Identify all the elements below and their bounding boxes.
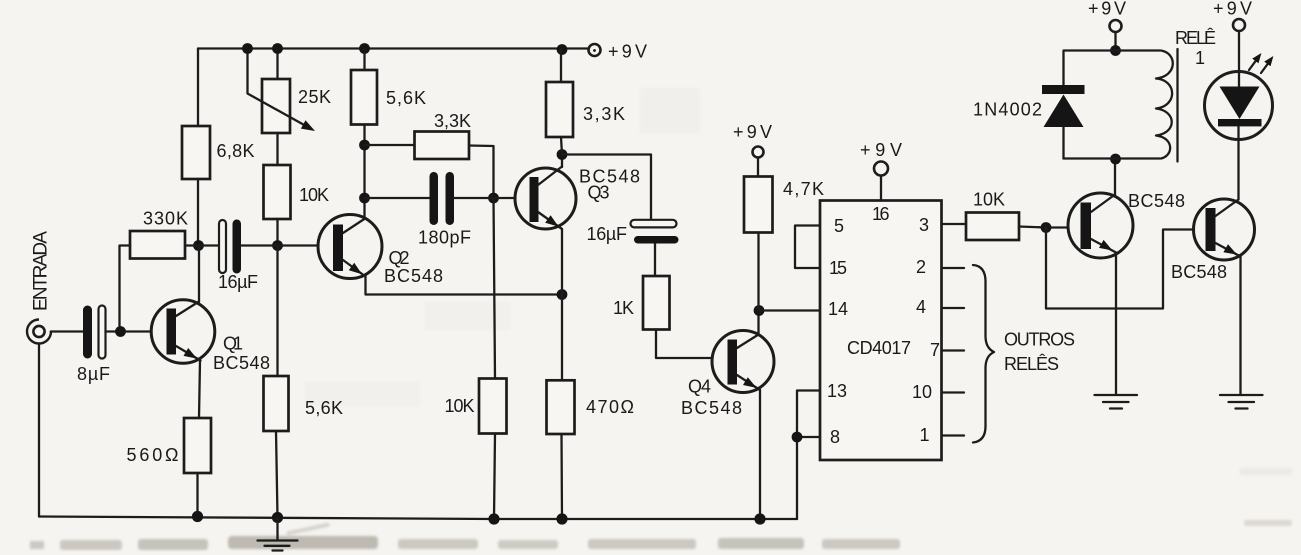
wire 10K bottom lead: [276, 219, 278, 246]
label pin 1: [920, 425, 930, 445]
label BC548 of Q3: [579, 167, 640, 187]
svg-text:180pF: 180pF: [418, 228, 471, 248]
transistor Q1: [151, 300, 215, 364]
wire +9V top rail: [198, 47, 588, 49]
wire 1K to Q4 base: [656, 330, 713, 359]
label ENTRADA: [31, 231, 52, 311]
wire ground bus: [39, 517, 797, 520]
junction emitter node (Q2/Q3/470): [557, 289, 568, 300]
wire Q1 emitter lead: [199, 361, 200, 419]
svg-text:+9V: +9V: [1213, 0, 1252, 19]
junction 5.6K top on rail: [359, 43, 370, 54]
svg-text:RELÊ: RELÊ: [1175, 28, 1216, 48]
label 16uF right: [587, 224, 628, 244]
svg-text:BC548: BC548: [1128, 191, 1185, 211]
label pin 16: [872, 204, 890, 224]
resistor R 6.8K: [182, 126, 210, 179]
label Q2: [389, 248, 410, 268]
junction pot on +9V rail: [272, 43, 283, 54]
svg-text:1N4002: 1N4002: [973, 100, 1042, 120]
label OUTROS: [1004, 330, 1076, 350]
LED D2 triangle: [1220, 87, 1260, 120]
potentiometer 25K wiper arrowhead: [301, 120, 315, 131]
label pin 8: [830, 427, 840, 447]
svg-text:+9V: +9V: [860, 140, 902, 160]
LED D2 body circle: [1205, 72, 1273, 140]
svg-text:3,3K: 3,3K: [583, 104, 625, 124]
label BC548 of Q1: [213, 353, 270, 373]
LED light arrow 2: [1261, 56, 1273, 73]
wire 180pF to Q3 base: [454, 197, 516, 199]
label Q4: [688, 377, 711, 397]
junction pin 8/13 node: [792, 432, 803, 443]
junction relay top node: [1110, 45, 1121, 56]
resistor 330K: [130, 231, 185, 259]
wire 6.8K top lead: [197, 49, 199, 127]
wire 330K left lead down: [120, 246, 131, 332]
label CD4017: [847, 338, 911, 358]
svg-text:5,6K: 5,6K: [386, 88, 426, 108]
wire 3.3K top lead: [560, 50, 562, 83]
svg-text:4,7K: 4,7K: [783, 179, 824, 199]
wire pot to 10K: [276, 133, 278, 165]
wire Q4 emitter lead: [759, 390, 761, 519]
wire 5.6K (left) top lead: [276, 246, 278, 377]
terminal +9V 4.7K: [753, 147, 764, 158]
wire 3.3K bottom lead: [561, 137, 562, 155]
junction Q4 collector / pin14: [754, 305, 765, 316]
wire 16uF to Q2 base: [241, 244, 319, 246]
label 8uF: [77, 364, 110, 384]
svg-text:6,8K: 6,8K: [217, 141, 255, 161]
svg-text:8µF: 8µF: [77, 364, 110, 384]
label 560 ohm: [127, 445, 179, 465]
capacitor 180pF plate left: [430, 172, 439, 225]
label pin 3: [919, 215, 929, 235]
svg-text:5,6K: 5,6K: [305, 398, 343, 418]
label Q3: [588, 183, 610, 203]
wire ground bus left drop: [38, 344, 40, 517]
label +9V relay: [1088, 0, 1126, 19]
wire relay loop top: [1064, 49, 1160, 51]
svg-text:3,3K: 3,3K: [434, 111, 471, 131]
svg-text:16µF: 16µF: [218, 272, 258, 292]
junction 560 on ground bus: [192, 511, 203, 522]
wire base feedback run: [1046, 228, 1194, 309]
wire 5.6K to Q2 collector node: [363, 125, 365, 219]
label pin 5: [834, 216, 844, 236]
resistor 3,3K (Q3 load): [546, 82, 573, 137]
label pin 4: [916, 297, 926, 317]
capacitor 8uF plate right: [99, 306, 106, 359]
resistor 1K: [643, 276, 670, 330]
svg-text:BC548: BC548: [681, 398, 742, 418]
label BC548 of Q2: [384, 266, 443, 286]
junction Q4 emitter on ground bus: [754, 513, 765, 524]
junction 10K on ground bus: [488, 513, 499, 524]
label BC548 of Q4: [681, 398, 742, 418]
svg-text:25K: 25K: [298, 87, 331, 107]
label +9V LED: [1213, 0, 1252, 19]
junction 5.6K on ground bus: [272, 512, 283, 523]
transistor Q5 relay driver: [1068, 193, 1133, 258]
svg-text:1: 1: [1195, 48, 1205, 68]
wire Q2 emitter path: [366, 277, 563, 295]
wire 10K (Q3 base) drop: [494, 198, 496, 379]
resistor 10K (bias): [264, 165, 291, 219]
wire pins 5-15 jumper: [795, 226, 820, 269]
wire pin14 link: [759, 309, 820, 311]
junction 470 on ground bus: [556, 513, 567, 524]
wire relay loop bottom: [1064, 157, 1161, 159]
svg-text:BC548: BC548: [213, 353, 270, 373]
junction node B (bias / 16uF / 5.6K): [272, 240, 283, 251]
junction T5 base node: [1041, 222, 1052, 233]
wire LED to Q6 collector: [1237, 127, 1239, 200]
label 330K: [143, 209, 188, 229]
label 1K: [613, 298, 634, 318]
wire 6.8K bottom lead: [197, 179, 199, 246]
label pin 7: [930, 340, 940, 360]
svg-text:CD4017: CD4017: [847, 338, 911, 358]
resistor 3,3K feedback: [415, 132, 470, 160]
wire 4.7K bottom lead: [757, 233, 759, 311]
svg-text:15: 15: [829, 258, 847, 278]
label 5,6K lower: [305, 398, 343, 418]
svg-text:16µF: 16µF: [587, 224, 628, 244]
resistor 5,6K (Q2 collector load): [351, 70, 377, 125]
capacitor 16uF (right) top plate: [631, 220, 677, 228]
junction node A (Q1 collector / 330K right): [193, 240, 204, 251]
svg-text:10K: 10K: [299, 185, 329, 205]
IC U1 CD4017 body: [820, 201, 942, 461]
terminal +9V relay: [1110, 20, 1122, 32]
wire Q5 collector lead: [1114, 159, 1116, 195]
potentiometer 25K wiper wire: [248, 49, 307, 127]
junction Q3 base node: [488, 193, 499, 204]
connector ENTRADA jack: [27, 320, 51, 344]
label 1N4002: [973, 100, 1042, 120]
junction wiper on +9V rail: [242, 43, 253, 54]
wire pins 13-8 jumper: [797, 391, 820, 438]
wire 10K bottom to ground bus: [494, 434, 495, 520]
wire jack to 8uF: [51, 330, 83, 332]
svg-text:OUTROS: OUTROS: [1004, 330, 1076, 350]
svg-text:+9V: +9V: [733, 122, 772, 142]
svg-text:RELÊS: RELÊS: [1004, 354, 1060, 374]
junction relay bottom node: [1110, 154, 1121, 165]
label 3,3K feedback: [434, 111, 471, 131]
junction Q2 collector / 3.3K feedback: [359, 140, 370, 151]
resistor 4,7K: [744, 177, 773, 233]
svg-text:330K: 330K: [143, 209, 188, 229]
terminal +9V main: [589, 44, 601, 56]
capacitor 8uF plate left (solid): [83, 306, 92, 359]
svg-text:10K: 10K: [973, 190, 1005, 210]
wire pin 1 stub: [942, 434, 964, 436]
relay armature bar: [1176, 49, 1178, 162]
svg-text:470Ω: 470Ω: [586, 397, 634, 417]
transistor Q4: [712, 331, 774, 393]
label 25K: [298, 87, 331, 107]
label pin 10: [912, 382, 932, 402]
capacitor 16uF (right) bottom plate solid: [634, 236, 679, 244]
wire Q4 collector lead: [757, 311, 759, 335]
label 3,3K right: [583, 104, 625, 124]
wire Q2 collector to 180pF: [365, 197, 430, 199]
wire Q3 collector node to 16uF: [562, 155, 651, 220]
svg-text:+9V: +9V: [608, 42, 647, 62]
ground symbol main: [258, 518, 298, 551]
wire diode bottom lead: [1062, 127, 1064, 159]
label 470 ohm: [586, 397, 634, 417]
transistor Q3: [515, 167, 576, 230]
label pin 14: [828, 299, 848, 319]
svg-text:3: 3: [919, 215, 929, 235]
wire pin 4 stub: [942, 307, 964, 309]
ground symbol Q5: [1095, 395, 1138, 409]
label RELE: [1175, 28, 1216, 48]
junction Q1 base node: [115, 326, 126, 337]
junction 180pF left node: [359, 193, 370, 204]
label 10K mid: [445, 396, 475, 416]
svg-text:13: 13: [827, 381, 847, 401]
svg-text:4: 4: [916, 297, 926, 317]
wire 560 bottom lead: [196, 473, 198, 517]
svg-text:BC548: BC548: [1171, 262, 1227, 282]
brace outputs: [973, 265, 994, 443]
diode D1 1N4002 cathode bar: [1042, 85, 1085, 94]
svg-text:7: 7: [930, 340, 940, 360]
junction 3.3K top on rail: [557, 44, 568, 55]
label Q1: [223, 334, 243, 354]
svg-text:16: 16: [872, 204, 890, 224]
svg-text:10K: 10K: [445, 396, 475, 416]
terminal +9V LED: [1233, 19, 1245, 31]
resistor 10K (Q3 base): [479, 379, 507, 434]
svg-text:5: 5: [834, 216, 844, 236]
wire ground bus right riser: [796, 437, 798, 519]
label BC548 of Q5: [1128, 191, 1185, 211]
wire 5.6K top lead: [363, 49, 365, 71]
terminal +9V pin16: [874, 162, 888, 176]
LED D2 cathode bar: [1218, 119, 1262, 126]
resistor 470 ohm: [547, 380, 575, 434]
label BC548 of Q6: [1171, 262, 1227, 282]
svg-text:Q4: Q4: [688, 377, 711, 397]
LED light arrow 1: [1249, 53, 1261, 70]
wire pot top lead: [276, 49, 278, 80]
capacitor 16uF (coupling) plate left: [219, 220, 226, 273]
wire Q1 collector lead: [198, 246, 200, 303]
label relay 1: [1195, 48, 1205, 68]
wire pin 7 stub: [942, 349, 964, 351]
potentiometer 25K body: [262, 79, 290, 133]
svg-text:BC548: BC548: [384, 266, 443, 286]
wire 330K right to node A: [185, 244, 219, 246]
label +9V 4.7K: [733, 122, 772, 142]
wire Q6 emitter lead: [1239, 257, 1241, 395]
label +9V main: [608, 42, 647, 62]
wire diode top lead: [1062, 51, 1064, 87]
svg-text:ENTRADA: ENTRADA: [31, 231, 52, 311]
label 4,7K: [783, 179, 824, 199]
capacitor 16uF plate right (solid): [233, 220, 242, 274]
svg-text:560Ω: 560Ω: [127, 445, 179, 465]
svg-text:1K: 1K: [613, 298, 634, 318]
wire pin 2 stub: [942, 267, 964, 269]
svg-text:2: 2: [916, 257, 926, 277]
label pin 2: [916, 257, 926, 277]
pin 16 wire: [880, 176, 882, 201]
junction Q3 collector node: [557, 149, 568, 160]
resistor 10K output: [966, 213, 1019, 241]
transistor Q6 LED driver: [1194, 199, 1255, 260]
wire 470 bottom lead: [560, 434, 563, 519]
svg-text:8: 8: [830, 427, 840, 447]
wire emitter node to 470: [561, 295, 563, 381]
capacitor 180pF plate right: [446, 172, 455, 225]
svg-text:+9V: +9V: [1088, 0, 1126, 19]
label +9V pin16: [860, 140, 902, 160]
wire +9V to LED: [1238, 31, 1240, 87]
label 5,6K top: [386, 88, 426, 108]
relay coil: [1156, 51, 1173, 159]
label 16uF: [218, 272, 258, 292]
resistor 560 ohm: [184, 418, 211, 473]
svg-text:Q3: Q3: [588, 183, 610, 203]
svg-text:Q1: Q1: [223, 334, 243, 354]
wire to 3.3K feedback: [365, 144, 415, 146]
svg-text:10: 10: [912, 382, 932, 402]
wire 5.6K bottom lead: [276, 431, 278, 518]
diode D1 1N4002 body: [1044, 95, 1084, 128]
transistor Q2: [318, 215, 382, 279]
svg-text:14: 14: [828, 299, 848, 319]
label 10K bias: [299, 185, 329, 205]
wire 8uF to Q1 base: [106, 330, 152, 332]
wire +9V to 4.7K: [757, 158, 759, 177]
label pin 13: [827, 381, 847, 401]
ground symbol Q6: [1220, 395, 1263, 409]
wire pin 10 stub: [942, 391, 964, 393]
wire 10K to T5 base: [1019, 227, 1068, 228]
label 10K output: [973, 190, 1005, 210]
wire 16uF to 1K: [654, 244, 656, 277]
resistor 5,6K (left lower): [264, 376, 289, 431]
wire pin 3 stub: [942, 223, 966, 225]
wire +9V to relay node: [1114, 32, 1116, 51]
label pin 15: [829, 258, 847, 278]
label 6,8K: [217, 141, 255, 161]
label RELES: [1004, 354, 1060, 374]
svg-text:Q2: Q2: [389, 248, 410, 268]
wire 3.3K feedback right lead: [469, 146, 494, 199]
wire Q5 emitter lead: [1115, 253, 1117, 395]
wire Q3 emitter lead: [561, 229, 563, 295]
wire Q3 collector lead: [561, 155, 563, 168]
label 180pF: [418, 228, 471, 248]
svg-text:1: 1: [920, 425, 930, 445]
